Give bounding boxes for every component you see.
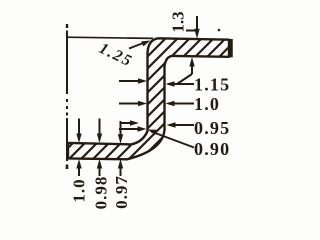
svg-text:0.98: 0.98	[92, 176, 111, 210]
svg-text:1.0: 1.0	[70, 178, 89, 202]
svg-text:0.97: 0.97	[112, 175, 131, 209]
svg-text:1.3: 1.3	[169, 11, 188, 32]
svg-text:1.25: 1.25	[96, 40, 135, 71]
svg-text:1.0: 1.0	[194, 94, 220, 114]
svg-text:1.15: 1.15	[194, 75, 230, 95]
svg-text:0.90: 0.90	[194, 139, 230, 159]
svg-text:0.95: 0.95	[194, 118, 230, 138]
